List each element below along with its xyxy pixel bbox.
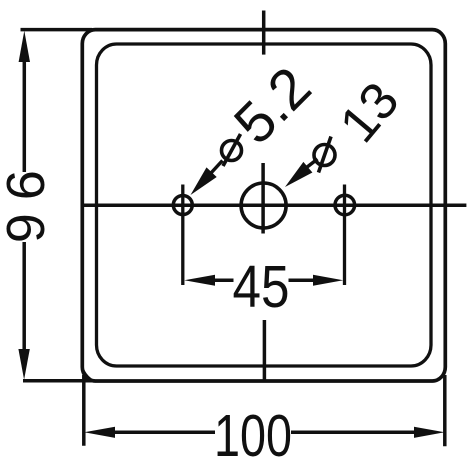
dim 100 right extension line: [443, 375, 447, 446]
right small hole vertical crosshair + extension line: [343, 185, 346, 286]
horizontal center line: [82, 203, 466, 207]
dim 45 arrow left: [184, 275, 215, 286]
svg-text:100: 100: [214, 403, 292, 469]
vertical center tick bottom: [263, 320, 267, 382]
leader line for O13: [307, 159, 318, 168]
leader line for O5.2: [211, 161, 223, 174]
slash of O5.2 diameter symbol: [223, 134, 241, 166]
corner ink blob bottom-left: [83, 365, 100, 382]
dim 45 line left segment: [214, 278, 234, 282]
inner panel outline: [97, 44, 432, 366]
leader arrow for O5.2: [191, 167, 217, 195]
dim 96 arrow up: [19, 31, 30, 62]
center hole O13: [241, 183, 286, 228]
dim 45 arrow right: [313, 275, 343, 286]
dim 45 line right segment: [289, 278, 315, 282]
dim 100 line right segment: [291, 431, 416, 435]
diameter symbol of O13 label: [314, 145, 335, 166]
dim 96 line lower segment: [22, 242, 26, 350]
svg-text:45: 45: [233, 254, 290, 320]
dim 96 arrow down: [18, 349, 29, 380]
vertical center tick top: [262, 11, 266, 55]
left small hole vertical crosshair + extension line: [181, 185, 184, 286]
dim 100 arrow left: [84, 427, 115, 438]
center hole vertical crosshair: [261, 163, 265, 234]
right small hole O5.2: [335, 195, 355, 215]
dim 100 arrow right: [414, 427, 445, 438]
dim 100 left extension line: [82, 375, 86, 446]
dim 96 line upper segment: [23, 60, 27, 172]
dim 96 bottom extension line: [23, 379, 92, 383]
svg-text:96: 96: [0, 170, 55, 256]
slash of O13 diameter symbol: [319, 137, 332, 173]
diameter symbol of O5.2 label: [222, 141, 242, 161]
dim 100 line left segment: [113, 431, 215, 435]
dim 96 top extension line: [21, 28, 93, 32]
outer panel outline: [82, 30, 445, 381]
left small hole O5.2: [173, 196, 192, 215]
leader arrow for O13: [285, 162, 312, 187]
